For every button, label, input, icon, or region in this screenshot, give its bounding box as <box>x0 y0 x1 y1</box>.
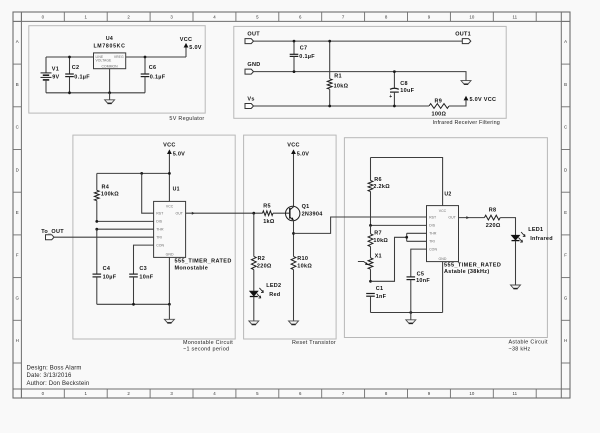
node gnd rail <box>168 303 171 306</box>
svg-text:2N3904: 2N3904 <box>302 211 324 217</box>
svg-text:555_TIMER_RATED: 555_TIMER_RATED <box>444 262 501 268</box>
svg-text:Astable (38kHz): Astable (38kHz) <box>444 269 489 275</box>
svg-text:Design: Boss Alarm: Design: Boss Alarm <box>27 366 82 372</box>
node bottom rail <box>409 311 412 314</box>
svg-text:R8: R8 <box>489 208 497 214</box>
svg-text:RST: RST <box>429 216 437 220</box>
svg-text:100kΩ: 100kΩ <box>101 192 119 198</box>
svg-text:+: + <box>389 94 392 100</box>
wire TRI stub <box>407 240 427 242</box>
svg-text:5.0V: 5.0V <box>189 45 201 51</box>
svg-text:4: 4 <box>213 14 216 19</box>
svg-text:220Ω: 220Ω <box>257 264 272 270</box>
node rail/vcc <box>168 172 171 175</box>
capacitor C1 <box>366 286 386 312</box>
section box: Reset Transistor <box>244 135 337 339</box>
svg-text:Reset Transistor: Reset Transistor <box>292 340 336 346</box>
ground IR <box>461 81 471 84</box>
svg-text:LED1: LED1 <box>528 227 543 233</box>
svg-text:10: 10 <box>469 391 474 396</box>
ground LED2 <box>249 321 259 324</box>
svg-text:B: B <box>16 82 19 87</box>
node R1 top <box>328 40 331 43</box>
svg-text:TRI: TRI <box>429 240 435 244</box>
LED1 Infrared <box>511 227 553 285</box>
svg-text:OUT: OUT <box>247 32 260 38</box>
wire emitter down <box>293 220 295 256</box>
node THR <box>95 228 98 231</box>
wire RST U1 <box>142 173 154 213</box>
svg-text:A: A <box>16 39 19 44</box>
wire X1 junction to THR/TRI tie <box>371 237 407 281</box>
node rail/rst <box>140 172 143 175</box>
svg-text:Red: Red <box>269 292 280 298</box>
svg-text:E: E <box>16 210 19 215</box>
node V1/C2 top <box>68 56 71 59</box>
capacitor C4 <box>93 266 117 304</box>
svg-text:4: 4 <box>213 391 216 396</box>
wire GND line <box>254 72 467 81</box>
svg-text:R7: R7 <box>374 231 382 237</box>
svg-text:X1: X1 <box>375 254 382 260</box>
svg-text:GND: GND <box>166 253 174 257</box>
capacitor C7 <box>290 41 316 72</box>
svg-text:5: 5 <box>256 391 259 396</box>
svg-text:8: 8 <box>385 391 388 396</box>
section box: Astable Circuit <box>344 138 547 338</box>
svg-text:0.1µF: 0.1µF <box>74 75 90 81</box>
svg-text:3: 3 <box>170 391 173 396</box>
resistor R1 <box>327 41 348 106</box>
svg-text:0: 0 <box>42 391 45 396</box>
svg-text:TRI: TRI <box>156 236 162 240</box>
ground monostable <box>168 304 170 319</box>
svg-text:GND: GND <box>439 257 447 261</box>
node C7 bottom <box>293 70 296 73</box>
wire bottom rail regulator <box>46 92 145 94</box>
svg-text:RST: RST <box>156 212 164 216</box>
wire U1 OUT <box>186 212 263 214</box>
node C8 top <box>393 70 396 73</box>
svg-text:CON: CON <box>429 248 437 252</box>
wire OUT line <box>254 40 463 42</box>
svg-text:C3: C3 <box>139 266 147 272</box>
svg-text:E: E <box>564 210 567 215</box>
connector OUT <box>245 32 260 44</box>
svg-text:DIS: DIS <box>156 220 163 224</box>
svg-text:OUT: OUT <box>448 216 456 220</box>
ground astable <box>410 313 412 320</box>
svg-text:5.0V: 5.0V <box>297 151 309 157</box>
resistor R2 <box>251 213 272 291</box>
ground regulator <box>109 93 111 100</box>
svg-text:2.2kΩ: 2.2kΩ <box>373 184 390 190</box>
section box: Infrared Receiver Filtering <box>234 26 506 118</box>
svg-text:LM7805KC: LM7805KC <box>93 44 125 50</box>
svg-text:C1: C1 <box>376 286 384 292</box>
svg-text:10kΩ: 10kΩ <box>373 238 388 244</box>
svg-text:OUT1: OUT1 <box>455 32 471 38</box>
svg-text:Astable Circuit: Astable Circuit <box>509 340 548 346</box>
svg-text:GND: GND <box>247 62 260 68</box>
node emitter <box>292 232 295 235</box>
svg-text:VCC: VCC <box>163 142 175 148</box>
svg-text:6: 6 <box>299 14 302 19</box>
lamp X1 <box>358 254 382 282</box>
svg-text:0.1µF: 0.1µF <box>299 54 315 60</box>
wire R8 to LED1 <box>500 218 515 236</box>
wire monostable top rail <box>97 172 170 174</box>
svg-text:COMMON: COMMON <box>102 65 119 69</box>
svg-text:C4: C4 <box>103 266 111 272</box>
resistor R4 <box>94 173 119 221</box>
svg-text:220Ω: 220Ω <box>486 223 501 229</box>
svg-text:9: 9 <box>428 391 431 396</box>
svg-text:10nF: 10nF <box>139 274 153 280</box>
power VCC 5.0V regulator <box>180 37 202 57</box>
wire U4 output <box>126 56 186 58</box>
svg-text:1nF: 1nF <box>376 294 387 300</box>
svg-text:OUT: OUT <box>175 212 183 216</box>
wire monostable bottom rail <box>97 303 170 305</box>
resistor R10 <box>291 256 312 321</box>
svg-text:100Ω: 100Ω <box>432 111 447 117</box>
node V1/C2 bottom <box>68 91 71 94</box>
svg-text:D: D <box>16 167 19 172</box>
svg-text:To_OUT: To_OUT <box>41 229 64 235</box>
svg-text:U1: U1 <box>173 187 180 193</box>
svg-text:8: 8 <box>385 14 388 19</box>
svg-text:G: G <box>15 295 19 300</box>
svg-text:1kΩ: 1kΩ <box>263 219 275 225</box>
svg-text:10µF: 10µF <box>103 274 117 280</box>
svg-text:9V: 9V <box>52 75 59 81</box>
svg-text:DIS: DIS <box>429 224 436 228</box>
resistor R7 <box>368 225 388 258</box>
svg-text:C: C <box>564 125 567 130</box>
svg-text:R1: R1 <box>334 74 342 80</box>
wire left rail to C4 <box>96 229 98 274</box>
node C7 top <box>293 40 296 43</box>
svg-text:7: 7 <box>342 14 345 19</box>
svg-text:~38 kHz: ~38 kHz <box>509 346 531 352</box>
svg-text:5.0V: 5.0V <box>173 151 185 157</box>
wire THR-TRI tie <box>406 233 408 241</box>
resistor R5 <box>263 204 275 225</box>
svg-text:C5: C5 <box>417 271 425 277</box>
section box: Monostable Circuit <box>73 135 235 339</box>
svg-text:9: 9 <box>428 14 431 19</box>
node DIS U2 <box>369 224 372 227</box>
wire U4 common drop <box>109 69 111 93</box>
op-amp U1 555 timer <box>154 187 232 272</box>
svg-text:10kΩ: 10kΩ <box>334 84 349 90</box>
svg-text:THR: THR <box>156 228 164 232</box>
svg-text:VCC: VCC <box>287 142 299 148</box>
svg-text:Author: Don Beckstein: Author: Don Beckstein <box>27 381 90 387</box>
capacitor C6 <box>141 57 166 93</box>
svg-text:1: 1 <box>85 391 88 396</box>
svg-text:C8: C8 <box>400 81 408 87</box>
wire GND U2 <box>442 262 444 313</box>
connector Vs <box>245 97 255 109</box>
svg-text:555_TIMER_RATED: 555_TIMER_RATED <box>175 258 232 264</box>
svg-text:U2: U2 <box>444 191 451 197</box>
section box: 5V Regulator <box>29 26 205 113</box>
svg-text:V1: V1 <box>52 66 59 72</box>
svg-text:R2: R2 <box>258 256 266 262</box>
ground R10 <box>289 321 299 324</box>
svg-text:R9: R9 <box>435 99 443 105</box>
node C3 bottom <box>132 303 135 306</box>
svg-text:Date: 3/13/2016: Date: 3/13/2016 <box>27 373 72 379</box>
wire base <box>273 212 290 214</box>
wire GND U1 <box>168 257 170 304</box>
svg-text:0: 0 <box>42 14 45 19</box>
wire U2 OUT <box>459 217 485 219</box>
svg-text:C: C <box>16 125 19 130</box>
svg-text:A: A <box>564 39 567 44</box>
wire emitter to astable RST <box>294 217 427 233</box>
power VCC reset <box>287 142 309 206</box>
power 5.0V VCC IR <box>464 96 497 103</box>
voltage regulator U4 LM7805KC <box>93 36 125 69</box>
node C6 top <box>144 56 147 59</box>
wire THR U1 <box>97 228 154 230</box>
node DIS <box>95 220 98 223</box>
resistor R6 <box>368 158 390 226</box>
svg-text:11: 11 <box>512 14 517 19</box>
capacitor C2 <box>65 57 90 93</box>
svg-text:2: 2 <box>127 391 130 396</box>
wire CON U1 <box>134 245 154 274</box>
svg-text:1: 1 <box>85 14 88 19</box>
wire R9 to VCC <box>449 100 466 106</box>
svg-text:VREG: VREG <box>114 55 124 59</box>
wire astable bottom rail <box>371 312 443 314</box>
LED2 Red <box>250 283 282 321</box>
wire top rail regulator <box>46 56 94 58</box>
svg-text:Vs: Vs <box>247 97 254 103</box>
svg-text:R10: R10 <box>297 256 308 262</box>
node R5/R2 <box>252 212 255 215</box>
svg-text:B: B <box>564 82 567 87</box>
svg-text:R4: R4 <box>102 185 110 191</box>
wire astable top rail <box>371 158 443 206</box>
resistor R9 <box>429 99 449 118</box>
svg-text:Monostable: Monostable <box>175 265 209 271</box>
op-amp U2 555 timer <box>427 191 502 275</box>
svg-text:10nF: 10nF <box>416 278 430 284</box>
power VCC monostable <box>163 142 185 201</box>
svg-text:D: D <box>564 167 567 172</box>
svg-text:G: G <box>564 295 568 300</box>
svg-text:Q1: Q1 <box>302 204 310 210</box>
battery V1 <box>41 57 60 93</box>
svg-text:5.0V VCC: 5.0V VCC <box>470 97 497 103</box>
svg-text:Infrared Receiver Filtering: Infrared Receiver Filtering <box>433 120 500 126</box>
svg-text:C6: C6 <box>149 65 157 71</box>
svg-text:7: 7 <box>342 391 345 396</box>
svg-text:Infrared: Infrared <box>530 236 553 242</box>
svg-text:R6: R6 <box>374 177 382 183</box>
svg-text:10kΩ: 10kΩ <box>297 264 312 270</box>
svg-text:F: F <box>16 253 19 258</box>
wire DIS U2 <box>371 224 427 226</box>
svg-text:~1 second period: ~1 second period <box>183 346 229 352</box>
resistor R8 <box>484 208 500 229</box>
svg-text:10uF: 10uF <box>400 88 414 94</box>
connector OUT1 <box>455 32 471 44</box>
wire CON U2 <box>411 249 427 277</box>
capacitor C5 <box>407 271 431 312</box>
node tie <box>405 236 408 239</box>
svg-text:5V Regulator: 5V Regulator <box>169 116 204 122</box>
svg-text:11: 11 <box>512 391 517 396</box>
svg-text:VCC: VCC <box>439 209 447 213</box>
svg-text:R5: R5 <box>263 204 271 210</box>
node X1/C1 <box>369 280 372 283</box>
svg-text:VCC: VCC <box>166 205 174 209</box>
svg-text:6: 6 <box>299 391 302 396</box>
svg-text:CON: CON <box>156 244 164 248</box>
title block text <box>27 366 90 387</box>
svg-text:2: 2 <box>127 14 130 19</box>
svg-text:VOLTAGE: VOLTAGE <box>96 59 113 63</box>
svg-text:10: 10 <box>469 14 474 19</box>
node common <box>108 91 111 94</box>
svg-text:Monostable Circuit: Monostable Circuit <box>183 340 233 346</box>
node C8 bottom <box>393 105 396 108</box>
svg-text:C2: C2 <box>72 65 80 71</box>
node R1 bottom <box>328 105 331 108</box>
wire Vs line <box>254 105 430 107</box>
wire DIS U1 <box>97 220 154 222</box>
wire THR stub <box>407 232 427 234</box>
svg-text:5: 5 <box>256 14 259 19</box>
svg-text:3: 3 <box>170 14 173 19</box>
svg-text:0.1µF: 0.1µF <box>150 75 166 81</box>
capacitor C8 polarized <box>389 72 414 106</box>
ground LED1 <box>511 285 521 288</box>
capacitor C3 <box>129 266 154 304</box>
svg-text:H: H <box>564 338 567 343</box>
svg-text:THR: THR <box>429 232 437 236</box>
svg-text:U4: U4 <box>106 36 113 42</box>
svg-text:F: F <box>564 253 567 258</box>
transistor Q1 2N3904 <box>286 204 324 221</box>
connector GND <box>245 62 260 74</box>
svg-text:VCC: VCC <box>180 37 192 43</box>
wire TRI U1 <box>54 236 154 238</box>
connector To_OUT <box>41 229 64 240</box>
svg-text:C7: C7 <box>300 45 308 51</box>
svg-text:H: H <box>16 338 19 343</box>
svg-text:LED2: LED2 <box>266 283 281 289</box>
